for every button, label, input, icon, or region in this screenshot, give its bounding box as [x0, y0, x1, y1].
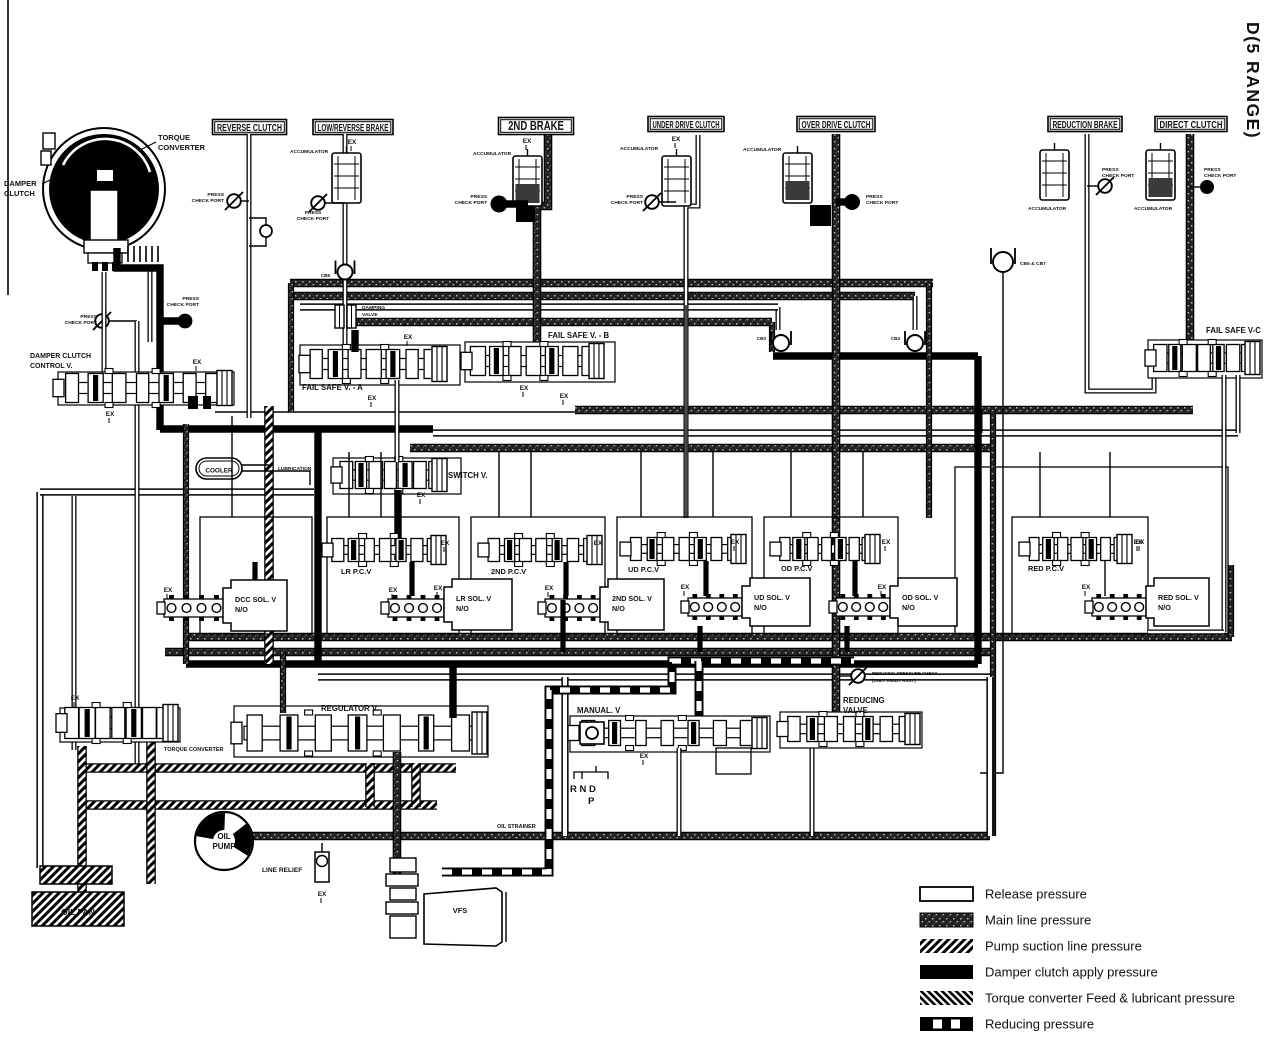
wire drop to RED enclosure: [1039, 452, 1041, 517]
wire ud center feed: [685, 305, 687, 518]
svg-text:ACCUMULATOR: ACCUMULATOR: [743, 147, 782, 153]
accumulator (low/reverse brake): [332, 153, 361, 203]
spool UD PCV: [633, 545, 740, 554]
svg-text:EX: EX: [523, 138, 532, 145]
valve body switch: [333, 458, 461, 494]
solenoid gear UD: [688, 598, 742, 616]
wire drop to LR enclosure: [348, 452, 350, 517]
wire dcc sol stub: [252, 562, 257, 580]
wire direct clutch drop: [1186, 134, 1195, 345]
svg-text:EX: EX: [640, 753, 649, 760]
wire stub dir port: [1190, 186, 1200, 188]
svg-text:D(5 RANGE): D(5 RANGE): [1243, 22, 1263, 139]
press check port (reduction): [1098, 179, 1112, 193]
svg-text:LUBRICATION: LUBRICATION: [278, 466, 312, 472]
press check port (low/reverse): [311, 196, 325, 210]
svg-text:N/O: N/O: [612, 604, 625, 613]
svg-text:(ONLY V6ODY ASSY): (ONLY V6ODY ASSY): [872, 678, 916, 683]
wire drop to RED enclosure b: [1109, 452, 1111, 517]
enclosure RED: [1012, 517, 1148, 634]
svg-text:DIRECT CLUTCH: DIRECT CLUTCH: [1160, 119, 1223, 131]
svg-text:VALVE: VALVE: [362, 312, 378, 318]
legend damper clutch apply: [920, 965, 973, 979]
wire reducing dashed to manual: [695, 661, 704, 720]
svg-text:ACCUMULATOR: ACCUMULATOR: [620, 146, 659, 152]
leader line torque converter: [140, 142, 156, 150]
svg-text:EX: EX: [441, 540, 450, 547]
wire stub lr port: [325, 202, 345, 204]
wire reverse clutch bypass loop: [249, 218, 266, 246]
svg-text:Pump suction line pressure: Pump suction line pressure: [985, 939, 1142, 954]
svg-text:FAIL SAFE V. - B: FAIL SAFE V. - B: [548, 331, 609, 340]
svg-text:Damper clutch apply pressure: Damper clutch apply pressure: [985, 965, 1158, 980]
solenoid DCC SOL V: [223, 580, 287, 631]
wire damper apply through damping valve: [351, 330, 358, 352]
press check port (direct): [1200, 180, 1214, 194]
wire main into regulator left: [280, 652, 286, 713]
svg-text:RED SOL. V: RED SOL. V: [1158, 593, 1199, 602]
press check port (damper apply): [178, 314, 193, 329]
svg-text:PUMP: PUMP: [212, 842, 236, 851]
press check port (under drive): [645, 195, 659, 209]
wire damper vertical x318: [314, 429, 321, 664]
accumulator (direct clutch): [1146, 150, 1175, 200]
wire stub 2nd port: [506, 200, 528, 207]
svg-text:EX: EX: [594, 540, 603, 547]
spool 2ND PCV: [491, 546, 596, 555]
check ball CB4: [905, 331, 925, 345]
spool manual valve: [581, 728, 761, 738]
wire main bus y448: [410, 444, 996, 453]
wire vertical x772 to black bus: [769, 322, 775, 352]
wire stub damper apply port: [160, 317, 179, 324]
wire release jog x980: [978, 410, 983, 433]
svg-text:PRESS: PRESS: [626, 194, 643, 200]
wire left release loop horizontal: [40, 488, 314, 495]
wire 2nd brake drop: [537, 135, 548, 352]
wire lr pcv to sol stub: [409, 562, 414, 596]
svg-text:CHECK PORT: CHECK PORT: [1204, 173, 1236, 179]
svg-text:EX: EX: [106, 411, 115, 418]
svg-text:EX: EX: [681, 584, 690, 591]
manual valve handle circle: [580, 722, 604, 744]
wire suction horizontal upper: [82, 763, 456, 773]
wire drop to UD enclosure b: [712, 452, 714, 517]
svg-text:2ND SOL. V: 2ND SOL. V: [612, 594, 652, 603]
wire low/reverse drop upper: [343, 134, 348, 158]
spool regulator valve: [244, 726, 481, 740]
wire main bus y322: [352, 318, 772, 327]
accumulator (over drive): [783, 153, 812, 203]
solenoid gear 2ND: [545, 599, 600, 617]
svg-text:SWITCH V.: SWITCH V.: [448, 471, 488, 480]
svg-text:CB6 & CB7: CB6 & CB7: [1020, 261, 1046, 267]
wire damper apply bus y356: [773, 352, 978, 359]
svg-text:EX: EX: [368, 395, 377, 402]
wire reduction brake drop: [1087, 134, 1154, 391]
svg-text:FAIL SAFE V-C: FAIL SAFE V-C: [1206, 326, 1261, 335]
wire drop to OD enclosure: [790, 452, 792, 517]
label box DIRECT CLUTCH: [1155, 117, 1227, 132]
oil pan: [40, 866, 112, 884]
solenoid OD SOL V: [890, 578, 957, 626]
svg-text:LINE RELIEF: LINE RELIEF: [262, 867, 302, 874]
svg-text:FAIL SAFE V. - A: FAIL SAFE V. - A: [302, 383, 363, 392]
wire stub reverse port: [241, 200, 249, 202]
svg-text:EX: EX: [878, 584, 887, 591]
solenoid gear DCC: [164, 599, 224, 617]
wire under drive drop: [686, 135, 698, 518]
svg-text:N/O: N/O: [902, 603, 915, 612]
svg-text:EX: EX: [545, 585, 554, 592]
wire CB6/CB7 drop: [980, 273, 1003, 773]
leader line damper clutch: [42, 176, 58, 184]
VFS solenoid: [390, 858, 416, 872]
enclosure right block: [955, 467, 1228, 634]
spool damper clutch control valve: [66, 383, 226, 394]
wire over drive drop: [832, 134, 841, 722]
enclosure 2ND: [471, 517, 605, 634]
svg-text:REDUCING: REDUCING: [843, 696, 885, 705]
svg-text:DAMPING: DAMPING: [362, 305, 385, 311]
wire od pcv to sol stub: [852, 561, 857, 596]
wire switch feed: [395, 380, 400, 462]
svg-text:CB8: CB8: [321, 273, 331, 278]
svg-text:CLUTCH: CLUTCH: [4, 189, 35, 198]
spool fail safe valve B: [474, 356, 598, 367]
svg-text:EX: EX: [1134, 539, 1143, 546]
wire black stub LR sol: [560, 600, 565, 652]
wire main bus y283: [290, 279, 933, 288]
svg-text:REDUCTION BRAKE: REDUCTION BRAKE: [1053, 119, 1118, 131]
svg-text:EX: EX: [882, 539, 891, 546]
svg-text:PRESS: PRESS: [80, 314, 97, 320]
svg-text:2ND BRAKE: 2ND BRAKE: [508, 119, 564, 133]
valve body regulator: [234, 706, 488, 757]
wire main vfs drop: [393, 752, 402, 885]
wire release into RED enclosure: [1148, 630, 1224, 635]
wire main bus y652: [165, 648, 990, 657]
wire release box manual right: [986, 677, 993, 836]
svg-text:CB3: CB3: [757, 336, 767, 341]
svg-text:UD SOL. V: UD SOL. V: [754, 593, 790, 602]
svg-text:UD P.C.V: UD P.C.V: [628, 565, 659, 574]
wire release bus y433: [433, 429, 1238, 436]
wire main vertical x186: [183, 424, 189, 664]
svg-text:TORQUE: TORQUE: [158, 133, 190, 142]
svg-text:EX: EX: [434, 585, 443, 592]
press check port (2nd brake): [491, 196, 508, 213]
svg-text:P: P: [588, 796, 595, 807]
wire main bus y637: [183, 633, 1232, 642]
wire suction vertical left: [77, 746, 87, 896]
svg-text:CHECK PORT: CHECK PORT: [611, 200, 643, 206]
enclosure OD: [764, 517, 898, 634]
legend release pressure: [920, 887, 973, 901]
svg-text:CHECK PORT: CHECK PORT: [192, 198, 224, 204]
svg-text:EX: EX: [164, 587, 173, 594]
wire main stub right of RED: [1228, 565, 1234, 637]
wire release bus y673 lower: [318, 673, 990, 680]
svg-text:PRESS: PRESS: [1102, 167, 1119, 173]
svg-text:ACCUMULATOR: ACCUMULATOR: [1028, 206, 1067, 212]
svg-text:REDUCING PRESSURE CHECK: REDUCING PRESSURE CHECK: [872, 671, 938, 676]
svg-text:N/O: N/O: [456, 604, 469, 613]
enclosure LR: [327, 517, 459, 634]
svg-text:Release pressure: Release pressure: [985, 887, 1087, 902]
legend main line pressure: [920, 913, 973, 927]
wire stub ud port: [659, 201, 676, 203]
valve body fail safe B: [465, 342, 615, 382]
svg-text:PRESS: PRESS: [470, 194, 487, 200]
spool switch valve: [344, 470, 441, 480]
wire release right x1238: [1236, 375, 1241, 433]
wire drop to OD enclosure b: [862, 452, 864, 517]
svg-text:TORQUE CONVERTER: TORQUE CONVERTER: [164, 747, 224, 753]
check ball CB6 CB7: [991, 248, 1015, 264]
accumulator (reduction brake): [1040, 150, 1069, 200]
valve body fail safe C: [1148, 340, 1262, 378]
svg-text:R N D: R N D: [570, 784, 596, 795]
svg-text:REGULATOR V.: REGULATOR V.: [321, 704, 378, 713]
manual valve position indicator RNDP: [574, 766, 608, 779]
wire release x137: [135, 321, 140, 768]
wire ud pcv to sol stub: [703, 561, 708, 596]
svg-text:EX: EX: [731, 539, 740, 546]
solenoid LR SOL V: [444, 579, 512, 630]
svg-text:ACCUMULATOR: ACCUMULATOR: [1134, 206, 1173, 212]
svg-text:Reducing pressure: Reducing pressure: [985, 1017, 1094, 1032]
wire suction vertical x151: [146, 708, 156, 884]
check ball on reverse line: [260, 225, 272, 237]
valve body fail safe A: [300, 345, 460, 385]
label box REDUCTION BRAKE: [1048, 117, 1122, 132]
wire left release loop vertical: [36, 492, 43, 868]
svg-text:UNDER DRIVE CLUTCH: UNDER DRIVE CLUTCH: [653, 119, 720, 131]
wire drop to LR enclosure b: [380, 452, 382, 517]
svg-text:Torque converter Feed & lubric: Torque converter Feed & lubricant pressu…: [985, 991, 1235, 1006]
enclosure DCC: [200, 517, 312, 634]
svg-text:ACCUMULATOR: ACCUMULATOR: [473, 151, 512, 157]
wire drop dcc enclosure: [231, 416, 233, 517]
wire left release vertical 2: [72, 496, 77, 750]
page border line: [7, 0, 9, 295]
wire main vertical x291: [288, 283, 294, 412]
enclosure UD: [617, 517, 752, 634]
reducing pressure check port: [851, 669, 865, 683]
wire stub reducing check: [840, 675, 851, 677]
wire black stub UD sol: [697, 626, 702, 652]
svg-text:EX: EX: [672, 136, 681, 143]
svg-text:EX: EX: [1082, 584, 1091, 591]
solenoid gear OD: [836, 598, 890, 616]
svg-text:DAMPER: DAMPER: [4, 179, 37, 188]
svg-text:EX: EX: [560, 393, 569, 400]
black ports under damper control valve: [188, 396, 198, 409]
solenoid 2ND SOL V: [600, 579, 664, 630]
wire vertical to CB4: [913, 296, 918, 330]
svg-text:EX: EX: [318, 891, 327, 898]
svg-text:CHECK PORT: CHECK PORT: [167, 302, 199, 308]
svg-text:OIL STRAINER: OIL STRAINER: [497, 824, 536, 830]
label box 2ND BRAKE: [499, 118, 574, 135]
wire vertical to CB3: [776, 307, 781, 330]
svg-text:EX: EX: [71, 695, 80, 702]
wire stub red port: [1087, 185, 1098, 187]
svg-text:OIL: OIL: [217, 832, 230, 841]
torque converter: [43, 128, 165, 250]
svg-text:PRESS: PRESS: [305, 210, 322, 216]
svg-text:CHECK PORT: CHECK PORT: [297, 216, 329, 222]
svg-text:CONTROL V.: CONTROL V.: [30, 363, 72, 370]
wire main bus y836 oil strainer: [250, 832, 990, 841]
valve body reducing: [780, 712, 922, 748]
wire release bus y305: [300, 303, 778, 310]
manual valve lower port box: [716, 748, 751, 774]
svg-text:REVERSE CLUTCH: REVERSE CLUTCH: [217, 122, 282, 134]
valve body manual: [570, 716, 770, 752]
check ball CB8: [336, 261, 355, 275]
accumulator (2nd brake): [513, 156, 542, 206]
cooler: [196, 458, 242, 479]
wire cooler inlet: [242, 464, 269, 466]
wire release from fail safe C down: [1222, 375, 1227, 632]
label box OVER DRIVE CLUTCH: [797, 117, 875, 132]
svg-text:OIL PAN: OIL PAN: [61, 907, 95, 917]
svg-text:EX: EX: [520, 385, 529, 392]
svg-text:EX: EX: [404, 334, 413, 341]
wire suction ring left: [365, 763, 375, 807]
svg-text:LR SOL. V: LR SOL. V: [456, 594, 491, 603]
solenoid gear RED: [1092, 598, 1146, 616]
legend reducing pressure: [920, 1017, 973, 1031]
wire drop to UD enclosure: [640, 452, 642, 517]
svg-text:ACCUMULATOR: ACCUMULATOR: [290, 149, 329, 155]
svg-text:EX: EX: [417, 492, 426, 499]
check ball CB3: [771, 331, 791, 345]
wire main vertical x993: [990, 410, 996, 836]
label box LOW/REVERSE BRAKE: [313, 120, 393, 135]
svg-text:N/O: N/O: [1158, 603, 1171, 612]
wire manual valve drop: [677, 748, 682, 836]
wire release below reducing: [810, 744, 815, 836]
wire damper vertical right x978: [974, 356, 981, 664]
wire suction ring right: [411, 763, 421, 807]
wire black stub OD sol: [844, 626, 849, 652]
svg-text:DAMPER CLUTCH: DAMPER CLUTCH: [30, 353, 91, 360]
spool OD PCV: [783, 545, 874, 554]
svg-text:OD SOL. V: OD SOL. V: [902, 593, 939, 602]
svg-text:CHECK PORT: CHECK PORT: [866, 200, 898, 206]
press check port (damper cooler): [95, 314, 109, 328]
svg-text:EX: EX: [193, 359, 202, 366]
wire main bus y410: [575, 406, 1193, 415]
damping valve: [335, 305, 344, 328]
legend pump suction: [920, 939, 973, 953]
wire thin line y412 left: [215, 411, 575, 413]
svg-text:VFS: VFS: [453, 906, 468, 915]
svg-text:COOLER: COOLER: [205, 468, 233, 475]
wire stub damper port: [109, 320, 137, 322]
oil pump: [195, 812, 253, 870]
svg-text:EX: EX: [348, 139, 357, 146]
press check port (reverse): [227, 194, 241, 208]
svg-text:CB4: CB4: [891, 336, 901, 341]
svg-text:EX: EX: [389, 587, 398, 594]
wire converter stem right: [148, 266, 153, 342]
line relief valve: [315, 852, 329, 882]
wire converter stem left: [102, 272, 107, 374]
spool fail safe valve A: [312, 359, 441, 370]
svg-text:LR P.C.V: LR P.C.V: [341, 567, 371, 576]
spool torque converter relief valve: [69, 717, 172, 729]
wire release box manual left: [561, 677, 568, 836]
spool LR PCV: [335, 546, 440, 555]
svg-text:DCC SOL. V: DCC SOL. V: [235, 595, 276, 604]
wire lubrication line: [242, 471, 310, 485]
wire red pcv to sol stub: [1104, 561, 1106, 596]
wire damper apply from converter: [117, 248, 160, 430]
solenoid RED SOL V: [1146, 578, 1209, 626]
black block below OD accumulator: [810, 205, 831, 226]
wire drop to 2ND enclosure b: [530, 452, 532, 517]
accumulator (under drive): [662, 156, 691, 206]
press check port (over drive): [844, 194, 860, 210]
black block below 2ND accumulator: [516, 206, 535, 222]
svg-text:PRESS: PRESS: [182, 296, 199, 302]
svg-text:LOW/REVERSE BRAKE: LOW/REVERSE BRAKE: [318, 122, 389, 134]
svg-text:PRESS: PRESS: [207, 192, 224, 198]
svg-text:N/O: N/O: [235, 605, 248, 614]
label box REVERSE CLUTCH: [213, 120, 287, 135]
svg-text:MANUAL. V: MANUAL. V: [577, 706, 621, 715]
svg-text:N/O: N/O: [754, 603, 767, 612]
svg-text:CHECK PORT: CHECK PORT: [65, 320, 97, 326]
svg-text:VALVE: VALVE: [843, 706, 868, 715]
spool fail safe valve C: [1158, 353, 1254, 363]
solenoid UD SOL V: [742, 578, 810, 626]
wire reducing dashed path: [442, 661, 854, 872]
svg-text:PRESS: PRESS: [866, 194, 883, 200]
wire drop to 2ND enclosure: [498, 452, 500, 517]
wire 2nd pcv to sol stub: [563, 562, 568, 596]
wire main vertical x929: [926, 283, 932, 518]
wire damper apply y429 left: [160, 425, 433, 432]
svg-text:OD P.C.V: OD P.C.V: [781, 564, 813, 573]
solenoid gear LR: [388, 599, 444, 617]
wire switch out black: [394, 490, 401, 560]
svg-text:RED P.C.V: RED P.C.V: [1028, 564, 1064, 573]
svg-text:PRESS: PRESS: [1204, 167, 1221, 173]
spool reducing valve: [790, 724, 914, 734]
wire black to regulator: [449, 664, 456, 718]
valve body damper clutch control: [58, 372, 234, 405]
wire stub od port: [836, 198, 845, 205]
wire suction to cooler: [264, 406, 274, 664]
svg-text:CHECK PORT: CHECK PORT: [455, 200, 487, 206]
valve body tc relief: [60, 708, 180, 742]
svg-text:2ND P.C.V: 2ND P.C.V: [491, 567, 526, 576]
svg-text:Main line pressure: Main line pressure: [985, 913, 1091, 928]
svg-text:CHECK PORT: CHECK PORT: [1102, 173, 1134, 179]
wire low/reverse drop lower: [343, 194, 348, 348]
svg-text:CONVERTER: CONVERTER: [158, 143, 206, 152]
spool RED PCV: [1032, 545, 1126, 554]
legend torque converter feed: [920, 991, 973, 1005]
wire main bus y296: [290, 292, 915, 301]
wire damper apply bus y664: [186, 660, 978, 667]
wire suction horizontal lower: [82, 800, 437, 810]
